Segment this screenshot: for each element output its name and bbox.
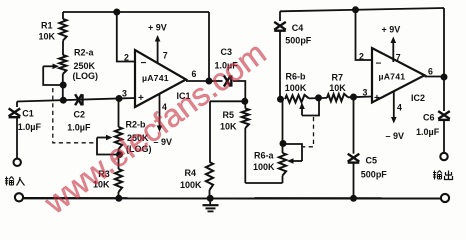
op-amp IC1 triangle bbox=[135, 50, 186, 107]
svg-text:2: 2 bbox=[124, 53, 129, 63]
capacitor C2 bbox=[75, 94, 82, 105]
svg-text:R1: R1 bbox=[41, 21, 53, 31]
node C5 junction bbox=[350, 94, 357, 101]
label C3 value 1.0µF bbox=[215, 60, 239, 70]
label C3 bbox=[221, 47, 233, 57]
label R2-a taper (LOG) bbox=[73, 71, 99, 81]
svg-text:7: 7 bbox=[396, 53, 401, 63]
svg-text:R7: R7 bbox=[332, 73, 344, 83]
label R2-b bbox=[126, 120, 147, 130]
dashed gang link R2 bbox=[53, 88, 97, 143]
wire ground bus bbox=[23, 197, 440, 199]
wire R2-b wiper bracket bbox=[97, 138, 119, 155]
capacitor C1 bbox=[9, 108, 21, 158]
svg-text:C6: C6 bbox=[423, 112, 435, 122]
power -9V arrow IC2 pin 4 bbox=[391, 91, 397, 124]
wiper arrow R2-b bbox=[97, 135, 113, 141]
label IC1 pin 3 bbox=[122, 88, 127, 98]
label R7 value 10K bbox=[329, 83, 346, 93]
resistor R4 bbox=[206, 101, 213, 198]
label IC1 pin 4 bbox=[162, 102, 167, 112]
svg-text:500pF: 500pF bbox=[285, 35, 312, 45]
svg-text:100K: 100K bbox=[285, 83, 307, 93]
wire IC2 feedback drop bbox=[443, 8, 445, 77]
node R6-b / R7 junction bbox=[315, 94, 322, 101]
node R2-b / R3 junction bbox=[116, 151, 123, 158]
label IC2 designator bbox=[411, 93, 425, 103]
node R2-a bottom junction bbox=[60, 97, 67, 104]
label output 输出 bbox=[433, 171, 453, 180]
label +9V IC1 bbox=[148, 23, 167, 33]
wire R2-a to input bus bbox=[62, 85, 64, 100]
label -9V IC2 bbox=[386, 131, 405, 141]
node C5 ground junction bbox=[350, 195, 357, 202]
wiper arrow R6-a bbox=[287, 158, 302, 164]
svg-text:100K: 100K bbox=[180, 180, 202, 190]
node R3 ground junction bbox=[115, 195, 122, 202]
power +9V arrow IC2 pin 7 bbox=[391, 37, 397, 63]
node C4 / R6-b junction bbox=[277, 96, 284, 103]
svg-text:R4: R4 bbox=[185, 168, 197, 178]
label C5 bbox=[366, 156, 378, 166]
svg-text:C4: C4 bbox=[292, 23, 304, 33]
capacitor C3 bbox=[224, 75, 231, 86]
svg-text:2: 2 bbox=[359, 52, 364, 62]
wire R5 to R6-a bottom bbox=[245, 182, 282, 184]
label C4 bbox=[292, 23, 304, 33]
svg-text:500pF: 500pF bbox=[361, 169, 388, 179]
label IC2 pin 7 bbox=[396, 53, 401, 63]
potentiometer R2-a bbox=[59, 55, 66, 85]
ground bbox=[203, 198, 219, 211]
wire R6-b left to R6-a bbox=[282, 99, 284, 143]
node C3/R4/R5 junction bbox=[241, 98, 248, 105]
label IC2 µA741 bbox=[379, 72, 406, 82]
wire noninverting bus IC1 bbox=[17, 98, 135, 102]
svg-text:+ 9V: + 9V bbox=[148, 23, 167, 33]
terminal output ground bbox=[441, 194, 449, 202]
wiper arrow R2-a bbox=[43, 64, 59, 70]
terminal input ground bbox=[15, 193, 23, 201]
label R4 bbox=[185, 168, 197, 178]
label C1 value 1.0µF bbox=[18, 122, 42, 132]
svg-text:+: + bbox=[138, 93, 144, 104]
svg-text:R6-a: R6-a bbox=[254, 150, 275, 160]
svg-text:10K: 10K bbox=[220, 122, 237, 132]
label R2-b taper (LOG) bbox=[126, 144, 152, 154]
potentiometer R2-b bbox=[115, 99, 122, 155]
svg-text:10K: 10K bbox=[329, 83, 346, 93]
node IC2 output bbox=[441, 74, 448, 81]
svg-text:– 9V: – 9V bbox=[386, 131, 405, 141]
svg-text:+: + bbox=[374, 93, 380, 104]
svg-text:1.0µF: 1.0µF bbox=[416, 127, 440, 137]
wire R2-a wiper bracket bbox=[43, 66, 63, 85]
label IC2 pin 4 bbox=[397, 102, 402, 112]
label -9V IC1 bbox=[154, 137, 173, 147]
wire R6-a wiper bracket bbox=[283, 144, 302, 161]
label input 输入 bbox=[5, 177, 25, 186]
power -9V arrow IC1 pin 4 bbox=[157, 94, 163, 132]
wire R6-b wiper bracket bbox=[302, 98, 319, 115]
label IC1 inverting sign bbox=[141, 58, 147, 69]
svg-text:+ 9V: + 9V bbox=[382, 25, 401, 35]
label R6-a value 100K bbox=[253, 162, 275, 172]
label R6-a bbox=[254, 150, 275, 160]
wire IC1 output bbox=[186, 80, 209, 82]
wire C3 to R4/R5 node bbox=[233, 81, 245, 101]
svg-text:3: 3 bbox=[363, 87, 368, 97]
potentiometer R6-b bbox=[285, 95, 309, 103]
label IC2 pin 3 bbox=[363, 87, 368, 97]
node pin2 junction on IC1 top rail bbox=[113, 9, 120, 16]
svg-text:100K: 100K bbox=[253, 162, 275, 172]
node R4 ground junction bbox=[207, 195, 214, 202]
label R6-b bbox=[286, 72, 307, 82]
label IC2 noninverting sign bbox=[374, 93, 380, 104]
svg-text:C1: C1 bbox=[22, 109, 34, 119]
label C2 bbox=[74, 110, 86, 120]
label IC1 pin 6 bbox=[192, 69, 197, 79]
label R5 bbox=[223, 110, 235, 120]
resistor R7 bbox=[327, 94, 372, 102]
wire feedback drop to IC1 output bbox=[208, 12, 210, 81]
label R5 value 10K bbox=[220, 122, 237, 132]
label IC1 designator bbox=[177, 91, 191, 101]
svg-text:1.0µF: 1.0µF bbox=[67, 123, 91, 133]
svg-text:(LOG): (LOG) bbox=[73, 71, 99, 81]
svg-text:R5: R5 bbox=[223, 110, 235, 120]
svg-text:3: 3 bbox=[122, 88, 127, 98]
svg-text:C5: C5 bbox=[366, 156, 378, 166]
op-amp IC2 triangle bbox=[372, 48, 425, 103]
label IC1 noninverting sign bbox=[138, 93, 144, 104]
wire top rail IC2 bbox=[280, 8, 444, 11]
svg-text:C2: C2 bbox=[74, 110, 86, 120]
wire top rail IC1 bbox=[63, 11, 209, 13]
capacitor C6 bbox=[438, 77, 450, 153]
svg-text:10K: 10K bbox=[39, 32, 56, 42]
capacitor C4 bbox=[274, 11, 286, 99]
node R6-a top junction bbox=[280, 140, 287, 147]
wire IC1 output to C3 bbox=[209, 80, 223, 82]
node IC1 output bbox=[206, 78, 213, 85]
wire R4 top link bbox=[210, 100, 245, 102]
watermark www.elecfans.com bbox=[37, 34, 272, 221]
svg-text:−: − bbox=[141, 58, 147, 69]
label C5 value 500pF bbox=[361, 169, 388, 179]
label IC2 inverting sign bbox=[376, 59, 382, 70]
label R3 bbox=[98, 169, 110, 179]
label R7 bbox=[332, 73, 344, 83]
potentiometer R6-a bbox=[279, 144, 286, 184]
svg-text:4: 4 bbox=[397, 102, 402, 112]
resistor R3 bbox=[115, 155, 122, 199]
label R1 bbox=[41, 21, 53, 31]
terminal input signal bbox=[14, 159, 21, 166]
label R6-b value 100K bbox=[285, 83, 307, 93]
svg-text:R2-a: R2-a bbox=[74, 48, 95, 58]
svg-text:R6-b: R6-b bbox=[286, 72, 307, 82]
label C2 value 1.0µF bbox=[67, 123, 91, 133]
wire C1 branch bbox=[16, 102, 18, 108]
wire pin2 drop IC1 bbox=[117, 12, 135, 62]
power +9V arrow IC1 pin 7 bbox=[155, 35, 161, 63]
resistor R1 bbox=[59, 12, 66, 55]
label IC1 µA741 bbox=[142, 73, 169, 83]
label IC2 pin 2 bbox=[359, 52, 364, 62]
wire IC2 output bbox=[425, 76, 445, 78]
label R2-a value 250K bbox=[74, 61, 96, 71]
label IC2 pin 6 bbox=[428, 67, 433, 77]
label R3 value 10K bbox=[93, 179, 110, 189]
svg-text:7: 7 bbox=[163, 50, 168, 60]
svg-text:6: 6 bbox=[428, 67, 433, 77]
svg-text:1.0µF: 1.0µF bbox=[18, 122, 42, 132]
svg-text:IC2: IC2 bbox=[411, 93, 425, 103]
label C4 value 500pF bbox=[285, 35, 312, 45]
node R2-a wiper tie bbox=[60, 82, 67, 89]
label +9V IC2 bbox=[382, 25, 401, 35]
label C6 value 1.0µF bbox=[416, 127, 440, 137]
node IC2 pin2 junction bbox=[352, 6, 359, 13]
dashed gang link R6 bbox=[303, 117, 314, 147]
wiper arrow R6-b bbox=[299, 103, 305, 116]
svg-text:µA741: µA741 bbox=[142, 73, 169, 83]
wire IC2 pin2 drop bbox=[356, 10, 373, 60]
label IC1 pin 7 bbox=[163, 50, 168, 60]
svg-text:−: − bbox=[376, 59, 382, 70]
node R2-b top junction bbox=[116, 95, 123, 102]
terminal output signal bbox=[440, 153, 447, 160]
capacitor C5 bbox=[348, 97, 360, 198]
label R2-a bbox=[74, 48, 95, 58]
label IC1 pin 2 bbox=[124, 53, 129, 63]
svg-text:µA741: µA741 bbox=[379, 72, 406, 82]
label R1 value 10K bbox=[39, 32, 56, 42]
svg-text:250K: 250K bbox=[74, 61, 96, 71]
resistor R5 bbox=[242, 101, 249, 183]
label C6 bbox=[423, 112, 435, 122]
label R2-b value 250K bbox=[127, 133, 149, 143]
label C1 bbox=[22, 109, 34, 119]
wire R6-b to R7 link bbox=[309, 97, 327, 100]
label R4 value 100K bbox=[180, 180, 202, 190]
